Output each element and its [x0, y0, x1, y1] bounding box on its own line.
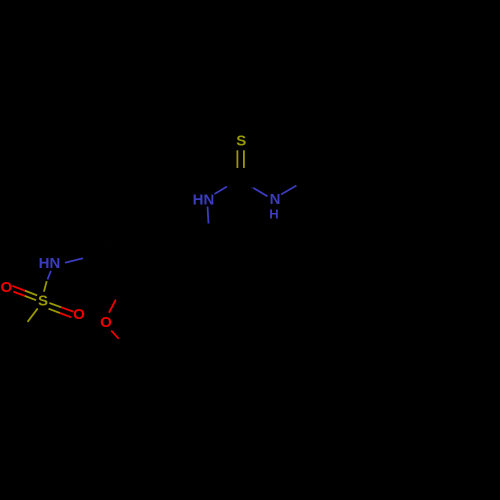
bond N3-C1 half near N	[281, 186, 297, 195]
bond O3-C(ring) half near O	[109, 300, 116, 313]
benzene ring1 inner aromatic line (carbon, near-black)	[113, 227, 129, 253]
bond N2-Cthio half near N	[215, 187, 228, 195]
bond N3-C1 half near C	[297, 177, 313, 186]
chain bond C3-C4 (carbon, near-black)	[366, 177, 393, 195]
bond N3-Cthio half near C	[240, 179, 254, 188]
benzene ring1 bond 4 (carbon, near-black)	[163, 221, 182, 255]
double bond S1=O2 line2 half near S	[49, 309, 60, 313]
double bond S1=O1 line1 half near S	[25, 291, 37, 296]
double bond S1=O2 line1 half near O	[61, 307, 73, 311]
phenyl ring2 inner aromatic line (carbon, near-black)	[398, 229, 423, 246]
bond N1-C(ring) half near N	[65, 258, 83, 263]
phenyl ring2 bond 1 (carbon, near-black)	[393, 178, 427, 195]
benzene ring1 bond 6 (carbon, near-black)	[104, 220, 124, 253]
bond O3-CH3 half near O	[111, 331, 119, 339]
chain bond C1-C2 (carbon, near-black)	[312, 177, 339, 195]
bond N1-C(ring) half near C	[83, 253, 104, 258]
phenyl ring2 inner aromatic line (carbon, near-black)	[449, 202, 451, 232]
bond N1-S1 half near S	[44, 281, 47, 292]
svg-text:O: O	[73, 306, 85, 323]
svg-text:N: N	[270, 191, 281, 208]
benzene ring1 inner aromatic line (carbon, near-black)	[159, 228, 173, 255]
bond N2-CH2 half near C	[209, 224, 210, 241]
benzene ring1 bond 1 (carbon, near-black)	[104, 253, 123, 287]
phenyl ring2 bond 3 (carbon, near-black)	[456, 199, 459, 237]
svg-text:O: O	[100, 314, 112, 331]
svg-text:S: S	[38, 293, 48, 310]
double bond Cthio=S2 line2 half near C	[242, 168, 244, 175]
benzene ring1 bond 3 (carbon, near-black)	[161, 255, 181, 288]
phenyl ring2 bond 5 (carbon, near-black)	[391, 232, 423, 253]
double bond S1=O1 line2 half near S	[25, 296, 36, 300]
double bond S1=O1 line2 half near O	[13, 292, 24, 296]
double bond Cthio=S2 line1 half near S	[236, 150, 238, 168]
double bond S1=O2 line2 half near O	[60, 313, 71, 317]
bond N1-S1 half near N	[48, 271, 51, 280]
bond N2-Cthio half near C	[227, 179, 240, 187]
svg-text:HN: HN	[39, 255, 61, 272]
svg-text:O: O	[0, 279, 12, 296]
bond S1-CH3 half near S	[28, 308, 38, 322]
svg-text:HN: HN	[193, 191, 215, 208]
bond N3-Cthio half near N	[252, 187, 268, 197]
svg-text:S: S	[236, 133, 246, 150]
benzene ring1 bond 2 (carbon, near-black)	[123, 287, 162, 288]
double bond S1=O2 line1 half near S	[49, 303, 61, 307]
bond S1-CH3 half near C	[17, 322, 27, 336]
bond N2-CH2 half near N	[208, 207, 209, 224]
double bond Cthio=S2 line2 half near S	[243, 150, 245, 168]
phenyl ring2 bond 6 (carbon, near-black)	[391, 195, 393, 233]
phenyl ring2 bond 4 (carbon, near-black)	[422, 237, 456, 254]
phenyl ring2 bond 2 (carbon, near-black)	[427, 178, 459, 199]
chain bond C2-C3 (carbon, near-black)	[339, 177, 366, 195]
benzene ring1 inner aromatic line (carbon, near-black)	[127, 278, 157, 281]
double bond S1=O1 line1 half near O	[12, 286, 24, 291]
benzene ring1 bond 5 (carbon, near-black)	[124, 220, 163, 221]
bond CH2-ring1 (carbon, near-black)	[181, 241, 209, 255]
svg-text:H: H	[269, 207, 278, 222]
bond O3-C(ring) half near C	[116, 287, 123, 300]
bond O3-CH3 half near C	[119, 339, 127, 347]
double bond Cthio=S2 line1 half near C	[237, 168, 238, 175]
phenyl ring2 inner aromatic line (carbon, near-black)	[400, 186, 427, 199]
